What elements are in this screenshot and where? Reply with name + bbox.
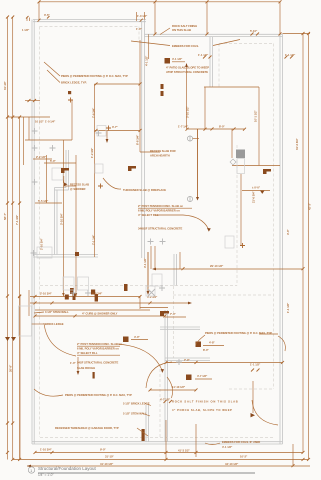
- symbol path: [230, 159, 236, 165]
- svg-text:5'-10": 5'-10": [250, 29, 258, 33]
- svg-text:BRICK LEDGE: BRICK LEDGE: [45, 322, 64, 326]
- dimension line horizontal y=117 x 7.5-50: [8, 116, 51, 118]
- dashed footing line vertical x=273.5 y 43.5-389: [273, 44, 275, 390]
- symbol path: [260, 191, 265, 194]
- svg-text:4'-1 1/2": 4'-1 1/2": [172, 57, 183, 61]
- symbol path: [182, 267, 305, 270]
- dimension line vertical x=207 y 1.8-34: [206, 2, 208, 34]
- svg-text:6 MIL POLY VAPOR BARRIER on: 6 MIL POLY VAPOR BARRIER on: [77, 347, 119, 351]
- dimension line horizontal y=317 x 165-186: [165, 316, 186, 318]
- svg-text:4" CURB @ SHOWER ONLY: 4" CURB @ SHOWER ONLY: [82, 312, 118, 316]
- dimension line horizontal y=316 x 35-165: [35, 315, 165, 317]
- pier/threshold mark at (64.8,294.5): [65, 295, 69, 300]
- pier box at (77.5,277): [78, 277, 89, 290]
- symbol path: [95, 82, 142, 85]
- pier/threshold mark at (141.5,429): [142, 429, 145, 441]
- svg-text:2'-10 3/4": 2'-10 3/4": [40, 292, 53, 296]
- symbol path: [68, 91, 71, 94]
- dashed footing line vertical x=39.5 y 26.5-437: [39, 27, 41, 438]
- svg-text:4'-1 1/2": 4'-1 1/2": [222, 445, 233, 449]
- symbol path: [285, 56, 294, 59]
- dimension line horizontal y=87 x 204-259: [204, 86, 259, 88]
- wall line vertical x=176.5 y 254-286: [176, 254, 178, 286]
- svg-text:3465SF STRUCTURAL CONCRETE: 3465SF STRUCTURAL CONCRETE: [138, 227, 183, 231]
- garage right wall: [164, 310, 166, 442]
- dimension line leader (213,45.5)-(240,39.5): [213, 40, 240, 46]
- symbol path: [164, 400, 173, 403]
- dimension line leader (143,413.5)-(150,416): [143, 414, 150, 417]
- svg-text:1'-0": 1'-0": [136, 27, 143, 31]
- dimension line leader (145,403.5)-(151,405.5): [145, 404, 151, 406]
- symbol path: [50, 145, 56, 151]
- svg-text:EMBEDS FOR COLS. IF USED: EMBEDS FOR COLS. IF USED: [222, 440, 260, 444]
- svg-text:1'-1 1/2": 1'-1 1/2": [250, 363, 261, 367]
- svg-text:31'-2 3/4": 31'-2 3/4": [295, 137, 299, 150]
- svg-text:1'-7 1/4": 1'-7 1/4": [178, 125, 189, 129]
- dashed footing line horizontal y=437.5 x 40-275: [40, 437, 275, 439]
- pier box at (95,164): [95, 164, 103, 173]
- line vertical x=190 y 135.9-141.1: [189, 136, 191, 141]
- dimension line horizontal y=303 x 30-188: [30, 302, 188, 304]
- pier box at (236,149.5): [236, 150, 245, 159]
- tick marks: [28, 99, 37, 102]
- symbol path: [6, 451, 21, 461]
- leader arc: [278, 336, 285, 351]
- svg-text:PIERS @ PERIMETER FOOTING @ 8': PIERS @ PERIMETER FOOTING @ 8' O.C. MAX,…: [65, 393, 132, 397]
- svg-text:41'-3 1/2": 41'-3 1/2": [178, 449, 191, 453]
- leader arc: [146, 362, 172, 388]
- dimension line vertical x=232 y 129-158: [231, 129, 233, 158]
- dashed footing line horizontal y=389 x 229-273.5: [229, 388, 274, 390]
- wall between garage and porch: [165, 357, 210, 359]
- wall line vertical x=144.5 y 19.5-258: [144, 20, 146, 259]
- porch leader vertical: [252, 381, 254, 413]
- wall line vertical x=167.5 y 310-442: [167, 310, 169, 442]
- svg-text:3'-10 1/2": 3'-10 1/2": [186, 105, 190, 118]
- dimension line vertical x=12.7 y 17-459.5: [12, 17, 14, 460]
- svg-text:1'-1 1/2": 1'-1 1/2": [286, 302, 290, 313]
- arrowhead / dark pier symbol: [106, 139, 109, 143]
- pier box at (18.5,306): [19, 306, 32, 336]
- dimension line horizontal y=186 x 63.4-76: [63, 185, 76, 187]
- dashed footing line horizontal y=285.5 x 40-237: [40, 285, 237, 287]
- svg-text:3'-10 3/4": 3'-10 3/4": [59, 212, 63, 225]
- symbol path: [34, 301, 152, 304]
- symbol path: [75, 252, 79, 256]
- interior wall stub: [160, 326, 200, 328]
- elevation marker: [242, 190, 270, 192]
- dimension line leader (44,312)-(34,313): [34, 312, 44, 313]
- arrowhead / dark pier symbol: [207, 228, 211, 232]
- svg-text:10 1/2": 10 1/2": [35, 120, 44, 124]
- dashed footing line horizontal y=43.5 x 219-273.5: [219, 43, 274, 45]
- symbol path: [251, 33, 260, 36]
- svg-text:1 1/2": 1 1/2": [22, 28, 30, 32]
- symbol path: [26, 16, 50, 19]
- svg-text:26'-9": 26'-9": [9, 364, 13, 372]
- arrowhead / dark pier symbol: [147, 291, 150, 295]
- svg-text:7'-0": 7'-0": [184, 358, 191, 362]
- right dim verticals: [302, 34, 304, 453]
- pier box at (237,158.5): [237, 159, 245, 174]
- symbol path: [165, 361, 285, 364]
- svg-text:58'-7": 58'-7": [3, 212, 7, 220]
- dimension line vertical x=20 y 296.5-459.5: [19, 297, 21, 460]
- leader arc: [103, 178, 121, 189]
- crosses: [68, 98, 245, 249]
- svg-text:1'-1 1/2": 1'-1 1/2": [198, 53, 209, 57]
- dashed footing line vertical x=237 y 145-285.5: [236, 145, 238, 286]
- arrowhead / dark pier symbol: [161, 369, 164, 373]
- symbol path: [64, 183, 68, 187]
- interior vertical wall: [65, 150, 67, 188]
- patio left wall: [209, 37, 211, 87]
- dimension line vertical x=29 y 290-316: [28, 290, 30, 316]
- symbol path: [5, 337, 16, 341]
- gray pier boxes: [19, 126, 245, 337]
- symbol path: [240, 243, 245, 248]
- dimension line leader (170,45.5)-(131,41): [131, 41, 170, 46]
- svg-text:3'-7": 3'-7": [112, 125, 119, 129]
- svg-text:EMBEDS FOR COLS.: EMBEDS FOR COLS.: [172, 44, 199, 48]
- svg-text:1'-0 1/2": 1'-0 1/2": [137, 14, 148, 18]
- wall line vertical x=282.5 y 34.3-444: [282, 34, 284, 444]
- symbol path: [96, 130, 102, 136]
- dimension line leader (60,76)-(44,62): [44, 62, 60, 76]
- top middle wall: [145, 33, 283, 35]
- svg-text:1'-10 3/4": 1'-10 3/4": [40, 448, 53, 452]
- svg-text:44'-10 1/2": 44'-10 1/2": [225, 462, 239, 466]
- porch top dim: [166, 362, 283, 364]
- symbol path: [34, 314, 167, 317]
- dimension line horizontal y=129 x 187-244.5: [187, 128, 245, 130]
- dimension line vertical x=155 y 1.8-34: [154, 2, 156, 34]
- svg-text:1'-0": 1'-0": [70, 361, 77, 365]
- svg-text:ROCK SALT FINISH ON THIS SLAB: ROCK SALT FINISH ON THIS SLAB: [172, 400, 239, 404]
- wall line vertical x=212.5 y 36.6-87: [212, 37, 214, 87]
- pier box at (37,247): [37, 247, 52, 258]
- svg-text:4" SELECT FILL: 4" SELECT FILL: [77, 351, 98, 355]
- svg-text:41'-10 1/2": 41'-10 1/2": [100, 462, 114, 466]
- dimension line horizontal y=269 x 156-303: [156, 268, 303, 270]
- dimension line horizontal y=165.5 x 232-280: [232, 165, 280, 167]
- datum circle marker: [187, 196, 192, 201]
- svg-text:7'-1 1/4": 7'-1 1/4": [92, 234, 96, 245]
- symbol path: [203, 56, 212, 59]
- symbol path: [149, 388, 198, 391]
- wall line horizontal y=21.7 x 33-146: [33, 21, 146, 23]
- symbol path: [251, 369, 260, 372]
- dashed footing line vertical x=139 y 26.5-40: [138, 27, 140, 41]
- wall line horizontal y=36.6 x 144.5-282.5: [145, 36, 283, 38]
- wall line vertical x=148.5 y 405-442: [148, 405, 150, 442]
- symbol path: [6, 422, 14, 425]
- symbol path: [18, 295, 141, 298]
- garage top dim cluster: [30, 296, 140, 298]
- dimension line vertical x=94.5 y 84-257: [94, 84, 96, 257]
- svg-text:4'-1 1/2": 4'-1 1/2": [143, 257, 147, 268]
- dimension line vertical x=241 y 174-245: [240, 174, 242, 245]
- top dim line: [39, 1, 280, 3]
- dimension line horizontal y=334 x 259-278: [259, 333, 278, 335]
- dimension line horizontal y=310 x 35-150: [35, 309, 150, 311]
- dimension line leader (170,28)-(160,34.5): [160, 28, 170, 35]
- porch step wall: [145, 405, 147, 442]
- dimension line vertical x=166 y 420-459.5: [165, 420, 167, 460]
- dimension line horizontal y=203 x 35-62: [35, 202, 62, 204]
- dimension line leader (137,428)-(148,436): [137, 428, 148, 436]
- dashed footing line vertical x=160 y 364-437: [159, 364, 161, 437]
- dashed footing line horizontal y=295 x 173-273.5: [173, 294, 274, 296]
- svg-text:@ SHOWER: @ SHOWER: [70, 187, 86, 191]
- symbol path: [85, 290, 91, 296]
- dashed footing line vertical x=219 y 43.5-87: [218, 44, 220, 88]
- misc left cluster: [25, 139, 72, 141]
- pier box at (123,336.5): [123, 337, 129, 343]
- wall line horizontal y=329.3 x 160-200: [160, 328, 200, 330]
- svg-text:42'-3": 42'-3": [308, 202, 312, 210]
- leader arc: [63, 176, 65, 183]
- symbol path: [32, 145, 38, 151]
- dimension line vertical x=205 y 87-129: [204, 87, 206, 129]
- dimension line vertical x=19.6 y 117-459.5: [19, 117, 21, 460]
- svg-text:ATOP STRUCTURAL CONCRETE: ATOP STRUCTURAL CONCRETE: [166, 70, 208, 74]
- pier box at (63,277): [63, 277, 74, 290]
- pier box at (97,125.5): [97, 126, 106, 137]
- dimension line vertical x=280 y 1.8-34: [279, 2, 281, 34]
- dimension line vertical x=180 y 252-269: [179, 252, 181, 269]
- leader arc: [155, 215, 209, 229]
- dimension line horizontal y=355.2 x 77-120: [77, 354, 120, 356]
- svg-text:ON THIS SLAB: ON THIS SLAB: [172, 28, 191, 32]
- interior wall below living area: [33, 254, 98, 256]
- dimension line horizontal y=130.5 x 94.5-140: [95, 130, 141, 132]
- dimension line vertical x=144.5 y 12-19.5: [144, 12, 146, 20]
- dimension line horizontal y=100.5 x 25-40: [25, 100, 40, 102]
- svg-text:SLAB ROUGH: SLAB ROUGH: [77, 366, 95, 370]
- symbol path: [34, 451, 305, 454]
- svg-text:11'-10 1/2": 11'-10 1/2": [172, 385, 186, 389]
- pier box at (164.5,58): [165, 58, 171, 64]
- svg-text:6 MIL POLY VAPOR BARRIER on: 6 MIL POLY VAPOR BARRIER on: [138, 209, 180, 213]
- dimension line horizontal y=84 x 94.5-140: [95, 83, 141, 85]
- symbol path: [292, 464, 295, 467]
- bottom edge garage+porch: [32, 441, 283, 443]
- leader arc: [252, 400, 278, 425]
- dimension line vertical x=186.5 y 64-129: [186, 64, 188, 129]
- symbol path: [251, 413, 256, 417]
- symbol path: [161, 84, 164, 96]
- dashed footing line vertical x=173.5 y 286-358: [173, 286, 175, 358]
- wall line horizontal y=360.4 x 165-210: [165, 359, 210, 361]
- wall line vertical x=54.5 y 187.5-254.5: [54, 188, 56, 255]
- wall line horizontal y=187.5 x 54.5-66: [55, 187, 67, 189]
- dimension line horizontal y=307.5 x 140-168: [140, 307, 168, 309]
- dimension line vertical x=29 y 117-140: [28, 117, 30, 140]
- symbol path: [6, 202, 21, 205]
- svg-text:PIERS @ PERIMETER FOOTING @ 8': PIERS @ PERIMETER FOOTING @ 8' O.C. MAX,…: [205, 331, 272, 335]
- dimension line vertical x=63.4 y 140-296.5: [62, 140, 64, 297]
- symbol path: [95, 129, 142, 132]
- svg-text:8'-8 3/4": 8'-8 3/4": [136, 134, 140, 145]
- wall line vertical x=34.2 y 19.5-444: [33, 20, 35, 445]
- datum circle marker: [28, 467, 34, 473]
- svg-text:10'-1 1/2": 10'-1 1/2": [254, 109, 258, 122]
- dimension line vertical x=78 y 357-371: [77, 357, 79, 371]
- dimension line vertical x=140 y 297-309: [139, 297, 141, 309]
- left dim verticals: [7, 17, 9, 460]
- arrowhead / dark pier symbol: [91, 290, 98, 302]
- symbol path: [160, 311, 169, 316]
- leader arc: [44, 323, 76, 356]
- wall line vertical x=68.5 y 150-190: [68, 150, 70, 190]
- svg-text:5'-5 1/2": 5'-5 1/2": [38, 199, 49, 203]
- symbol path: [106, 126, 111, 131]
- dimension line vertical x=155 y 246-269: [154, 246, 156, 269]
- symbol path: [31, 250, 37, 256]
- right wall: [279, 34, 281, 444]
- svg-text:2'-2 1/2": 2'-2 1/2": [36, 155, 47, 159]
- symbol path: [124, 284, 128, 291]
- leader arc: [118, 344, 162, 370]
- svg-text:54SF STRUCTURAL CONCRETE: 54SF STRUCTURAL CONCRETE: [77, 361, 119, 365]
- dimension line vertical x=72 y 100-140: [71, 100, 73, 140]
- dimension line vertical x=140 y 40-152: [139, 40, 141, 152]
- leader arc: [196, 335, 205, 345]
- wall line horizontal y=190 x 54.5-68.5: [55, 189, 69, 191]
- svg-text:31'-10": 31'-10": [3, 80, 7, 90]
- dimension line vertical x=148.7 y 34.3-59: [148, 34, 150, 59]
- dimension line vertical x=27 y 17.5-21: [26, 18, 28, 22]
- dimension line vertical x=46.6 y 155-203: [46, 155, 48, 203]
- arrowhead / dark pier symbol: [70, 288, 76, 300]
- svg-text:3 1/2" STEM WALL: 3 1/2" STEM WALL: [45, 310, 69, 314]
- svg-text:7'-1 3/4": 7'-1 3/4": [15, 214, 19, 225]
- arrowhead / dark pier symbol: [196, 197, 199, 201]
- svg-text:BRICK LEDGE, TYP.: BRICK LEDGE, TYP.: [61, 81, 87, 85]
- dimension line vertical x=107 y 131-139: [106, 131, 108, 139]
- datum circle marker: [187, 136, 192, 141]
- svg-text:4'-0": 4'-0": [134, 335, 141, 339]
- top-left block top edge: [33, 19, 146, 21]
- dimension line leader (60,82.5)-(47,70): [47, 70, 60, 83]
- arrowhead / dark pier symbol: [185, 63, 188, 67]
- line horizontal y=473 x 38-255: [38, 472, 255, 474]
- symbol path: [165, 458, 311, 461]
- leader line vertical x=148 y 252-291: [147, 252, 149, 291]
- step wall right of top-left block: [141, 21, 143, 258]
- symbol path: [98, 184, 103, 189]
- dimension line horizontal y=152 x 140-160: [140, 151, 160, 153]
- dimension line vertical x=136.5 y 12-21: [136, 12, 138, 21]
- symbol path: [302, 32, 311, 35]
- dimension line horizontal y=466 x 27-310: [27, 465, 310, 467]
- dimension line vertical x=23.4 y 117-165: [22, 117, 24, 165]
- symbol path: [32, 128, 38, 134]
- svg-text:2" POST-TENSION CONC. SLAB on: 2" POST-TENSION CONC. SLAB on: [77, 342, 122, 346]
- svg-text:8'-0": 8'-0": [203, 348, 210, 352]
- pier box at (225,236): [225, 236, 234, 248]
- dimension line horizontal y=379 x 195-212: [195, 378, 212, 380]
- svg-text:5'-0": 5'-0": [50, 159, 57, 163]
- svg-text:RECESS SLAB FOR: RECESS SLAB FOR: [150, 149, 176, 153]
- dimension line horizontal y=208.2 x 138-192: [138, 207, 192, 209]
- dimension line vertical x=29.5 y 17.5-21: [29, 18, 31, 22]
- symbol path: [6, 295, 21, 298]
- dark pier symbols: [123, 58, 265, 417]
- arrowhead / dark pier symbol: [27, 465, 31, 468]
- symbol path: [6, 16, 14, 19]
- symbol path: [160, 239, 166, 245]
- svg-text:RECESS SLAB: RECESS SLAB: [70, 183, 89, 187]
- wall line horizontal y=257 x 33-98: [33, 256, 98, 258]
- svg-text:8'-0": 8'-0": [219, 125, 226, 129]
- dimension line horizontal y=345.5 x 203-224: [203, 345, 224, 347]
- arrowhead / dark pier symbol: [62, 293, 77, 296]
- svg-text:PIERS @ PERIMETER FOOTING @ 8': PIERS @ PERIMETER FOOTING @ 8' O.C. MAX,…: [61, 74, 128, 78]
- svg-text:2'-10 3/4": 2'-10 3/4": [40, 237, 44, 250]
- pier box at (195.5,341.5): [196, 342, 202, 348]
- dimension line vertical x=39 y 1.8-20: [38, 2, 40, 20]
- svg-text:2" POST-TENSION CONC. SLAB on: 2" POST-TENSION CONC. SLAB on: [138, 204, 183, 208]
- svg-text:1/4" = 1'-0": 1/4" = 1'-0": [38, 473, 54, 477]
- svg-text:4'-1 1/2": 4'-1 1/2": [145, 55, 149, 66]
- svg-text:RECESSED THRESHOLD @ GARAGE DO: RECESSED THRESHOLD @ GARAGE DOOR, TYP: [55, 426, 119, 430]
- svg-text:29'-10 1/2": 29'-10 1/2": [210, 264, 224, 268]
- symbol path: [61, 168, 69, 173]
- wall line horizontal y=444 x 32-282.5: [32, 443, 283, 445]
- wall line vertical x=57 y 190-254.5: [56, 190, 58, 255]
- svg-text:10'-2": 10'-2": [240, 455, 248, 459]
- pier box at (152,274): [152, 274, 162, 286]
- symbol path: [32, 179, 38, 185]
- svg-text:9'-0": 9'-0": [100, 448, 107, 452]
- symbol path: [159, 285, 165, 291]
- dimension line horizontal y=33.5 x 282.5-310: [283, 33, 311, 35]
- dimension line horizontal y=324 x 44-31: [31, 323, 44, 325]
- dimension line horizontal y=339.5 x 131-148: [131, 339, 148, 341]
- svg-text:4" PATIO SLAB, SLOPE TO WEEP: 4" PATIO SLAB, SLOPE TO WEEP: [166, 66, 209, 70]
- symbol path: [186, 128, 247, 131]
- dimension line horizontal y=159 x 33-52: [33, 158, 52, 160]
- dimension line vertical x=259 y 87-165.5: [258, 87, 260, 166]
- symbol path: [128, 166, 136, 171]
- symbol path: [71, 290, 77, 296]
- symbol path: [38, 0, 282, 3]
- leader line vertical x=197.5 y 129-198: [197, 129, 199, 198]
- svg-text:± 0'-0": ± 0'-0": [252, 186, 261, 190]
- symbol path: [154, 33, 282, 36]
- svg-text:9'-8 3/4": 9'-8 3/4": [92, 292, 103, 296]
- interior vertical wall right: [173, 254, 175, 286]
- stepped zigzag section marks: [5, 84, 271, 341]
- dimension line horizontal y=346.2 x 77-120: [77, 345, 120, 347]
- pier box at (186,374.5): [186, 375, 192, 381]
- dimension line vertical x=151 y 246-269: [150, 246, 152, 269]
- dimension line horizontal y=138.5 x 192.6-199: [193, 138, 199, 140]
- arrowhead / dark pier symbol: [77, 371, 80, 375]
- dimension line vertical x=293 y 444-466: [292, 444, 294, 466]
- symbol path: [148, 289, 155, 296]
- dimension line vertical x=196 y 424-457: [195, 424, 197, 457]
- pier box at (52,168): [52, 168, 63, 180]
- svg-text:ROCK SALT FINISH: ROCK SALT FINISH: [172, 24, 197, 28]
- symbol path: [68, 98, 73, 103]
- symbol path: [176, 359, 182, 365]
- dimension line vertical x=308.5 y 33.5-459.5: [308, 34, 310, 460]
- dimension line horizontal y=459.5 x 12.7-308.5: [13, 459, 309, 461]
- svg-text:7'-6 3/4": 7'-6 3/4": [92, 107, 96, 118]
